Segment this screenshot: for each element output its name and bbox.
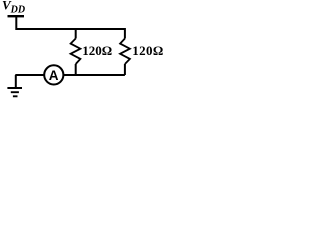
svg-text:120Ω: 120Ω [82, 43, 112, 58]
wire: ground stem [15, 75, 17, 87]
wire: VDD stem, top rail, R2 top lead [16, 17, 125, 39]
wire: bottom rail [15, 74, 125, 76]
wire: R1 bottom lead [75, 64, 77, 75]
svg-text:VDD: VDD [2, 0, 25, 16]
svg-text:120Ω: 120Ω [132, 43, 163, 58]
resistor R1 [71, 39, 81, 65]
ground [7, 87, 22, 89]
power terminal bar VDD [8, 15, 25, 17]
wire: R1 top lead [75, 29, 77, 39]
wire: R2 bottom lead [124, 64, 126, 75]
svg-text:A: A [49, 68, 59, 83]
ammeter A1 [44, 65, 63, 84]
resistor R2 [120, 39, 130, 65]
